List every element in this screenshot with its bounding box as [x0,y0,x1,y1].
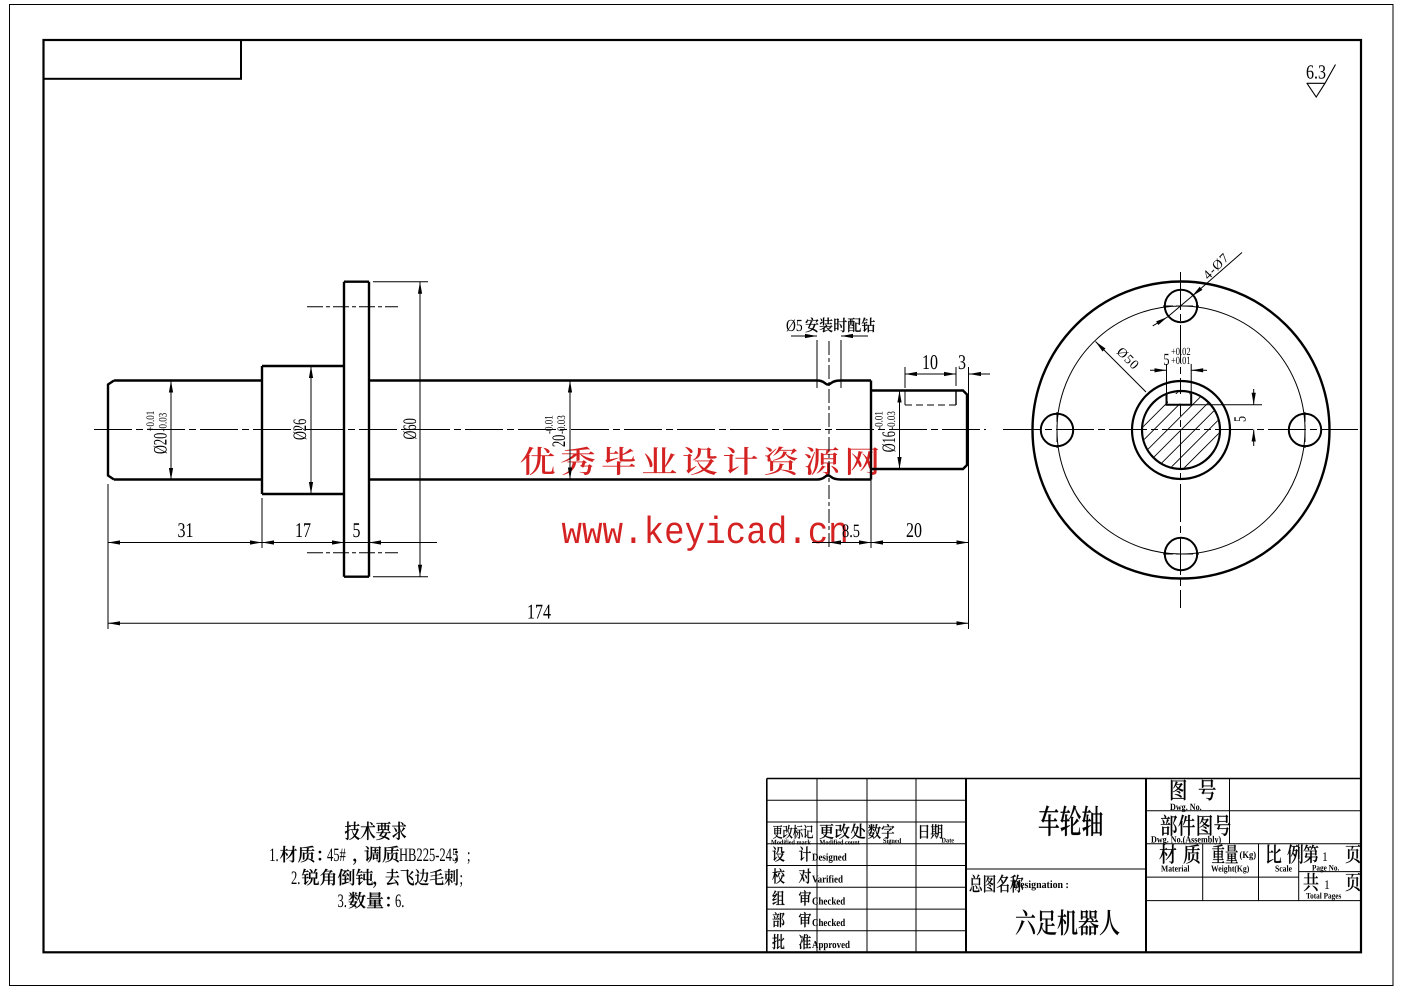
dimension 17 [262,542,344,544]
designation label [970,875,1024,893]
flange outer circle [1033,282,1330,579]
part name 车轮轴 [1039,805,1103,836]
svg-text:Scale: Scale [1275,864,1292,874]
bolt hole left [1041,414,1073,446]
dimension 31 [108,542,262,544]
svg-text:(Kg): (Kg) [1240,850,1257,861]
svg-text:Approved: Approved [812,940,850,951]
material cell [1159,844,1176,863]
bolt hole bottom [1165,538,1197,570]
dimension Ø60 flange [419,282,421,577]
svg-text:2.: 2. [291,868,300,889]
label 4-Ø7 holes [1192,253,1242,297]
bolt hole top [1165,290,1197,322]
svg-text:+0.01: +0.01 [1171,355,1191,367]
flange horizontal centerline [1003,429,1358,431]
svg-text:5: 5 [1231,416,1250,422]
dimension 20-0.01-0.03 long section [569,381,571,480]
dimension 8.5 [812,542,829,544]
tech req line 2 [291,868,300,889]
bore circle with shaft section [1142,391,1220,469]
svg-text:Designation :: Designation : [1013,879,1069,891]
svg-text:6.: 6. [395,891,404,912]
svg-text:-0.03: -0.03 [556,415,568,434]
svg-text:www.keyicad.cn: www.keyicad.cn [562,512,849,555]
svg-text:Ø16: Ø16 [879,431,900,452]
dimension 5 keyway depth [1191,404,1262,406]
svg-text:Page No.: Page No. [1312,863,1339,873]
svg-text:Designed: Designed [812,852,847,863]
svg-text:-0.01: -0.01 [874,411,886,430]
svg-text:Ø5: Ø5 [786,316,803,335]
dimension Ø26 [310,366,312,494]
dimension 5 flange width [344,542,369,544]
svg-text:6.3: 6.3 [1306,62,1326,84]
svg-text:;: ; [460,868,463,889]
svg-text:5: 5 [1164,350,1170,369]
assembly hole centerline [828,341,830,549]
tech req line 1 [269,845,278,866]
svg-text:8.5: 8.5 [842,521,860,542]
svg-text:Ø20: Ø20 [150,433,171,454]
svg-text:Dwg. No.(Assembly): Dwg. No.(Assembly) [1151,836,1221,846]
title block header row texts [773,825,813,839]
tech req line 3 [338,891,347,912]
shaft outline [108,282,967,577]
flange vertical centerline [1180,272,1182,608]
svg-text:Modified mark: Modified mark [771,838,811,846]
watermark url red text [562,512,849,555]
svg-text:Ø26: Ø26 [290,419,311,440]
dimension 5+0.02+0.01 keyway width [1166,364,1168,394]
svg-text:20: 20 [906,518,922,542]
weight cell [1212,844,1238,863]
bolt hole centerline upper (side view) [307,306,398,308]
svg-text:Weight(Kg): Weight(Kg) [1211,864,1249,874]
svg-text:Ø50: Ø50 [1114,344,1143,373]
section hatch [1058,375,1305,485]
bolt hole right [1289,414,1321,446]
dimension Ø16-0.01-0.03 end section [899,391,901,470]
dwg no cell [1171,779,1186,800]
svg-text:3.: 3. [338,891,347,912]
svg-text:Ø60: Ø60 [400,418,421,439]
keyway [1167,394,1192,405]
bolt hole centerline lower (side view) [307,552,398,554]
svg-text:Varified: Varified [812,874,843,885]
svg-text:Date: Date [942,836,955,844]
svg-text:20: 20 [549,435,570,447]
svg-text:Checked: Checked [812,896,845,907]
title block grid [767,779,1361,953]
dimension 3 end [969,373,990,375]
page no cell [1304,845,1319,864]
scale cell [1267,845,1281,864]
dimension 174 overall [108,622,969,624]
assembly name 六足机器人 [1016,909,1120,935]
svg-text:Dwg. No.: Dwg. No. [1170,803,1202,813]
watermark chinese red text [521,446,879,475]
svg-text:HB225-245: HB225-245 [399,845,458,866]
svg-text:45#: 45# [327,845,346,866]
shaft axis centerline [94,429,986,431]
svg-text:10: 10 [922,350,938,374]
extension lines bottom dims [107,484,109,629]
svg-text:174: 174 [527,600,551,624]
dimension Ø20+0.01-0.03 left section [170,381,172,481]
top-left title strip box [44,40,242,79]
technical requirements title [345,822,406,841]
svg-text:-0.03: -0.03 [157,413,169,432]
dimension Ø5 assembly hole label [816,340,818,388]
hidden flat lines on Ø16 end [904,391,906,406]
assembly dwg no cell [1161,815,1231,836]
svg-text:5: 5 [353,518,361,542]
svg-text:Checked: Checked [812,918,845,929]
svg-text:3: 3 [958,350,966,374]
total pages cell [1304,873,1319,891]
svg-text:-0.03: -0.03 [886,411,898,430]
svg-text:+0.01: +0.01 [145,411,157,432]
dimension 20 end [871,542,969,544]
svg-text:4-Ø7: 4-Ø7 [1200,250,1232,282]
svg-text:Modified count: Modified count [820,838,861,846]
svg-text:Total Pages: Total Pages [1306,891,1342,901]
svg-text:;: ; [467,845,470,866]
label Ø50 bolt circle [1096,342,1147,393]
svg-text:31: 31 [178,518,194,542]
svg-text:-0.01: -0.01 [544,415,556,434]
svg-text:17: 17 [295,518,311,542]
hub outer circle [1132,381,1230,479]
surface finish symbol 6.3 [1306,62,1326,84]
svg-text:1.: 1. [269,845,278,866]
bolt circle Ø50 [1057,306,1305,554]
dimension 10 thread length [904,367,906,388]
svg-text:Material: Material [1161,864,1190,874]
title block signature rows [773,847,785,862]
svg-text:Signed: Signed [883,837,901,845]
